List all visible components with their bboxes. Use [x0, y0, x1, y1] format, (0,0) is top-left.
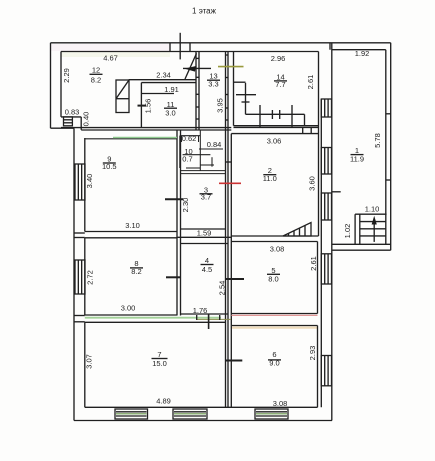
- svg-text:3.40: 3.40: [85, 174, 94, 189]
- svg-text:11: 11: [167, 100, 175, 109]
- svg-text:3.3: 3.3: [208, 80, 218, 89]
- svg-text:2.96: 2.96: [271, 54, 286, 63]
- svg-text:11.9: 11.9: [350, 154, 364, 163]
- svg-text:10.5: 10.5: [102, 162, 117, 171]
- svg-text:2.72: 2.72: [85, 270, 94, 285]
- svg-text:0.7: 0.7: [182, 155, 192, 164]
- svg-text:2.61: 2.61: [306, 75, 315, 90]
- svg-text:1 этаж: 1 этаж: [192, 7, 217, 16]
- svg-text:4.5: 4.5: [202, 265, 212, 274]
- svg-text:1.59: 1.59: [197, 229, 212, 238]
- svg-text:0.40: 0.40: [82, 112, 91, 127]
- svg-text:1.91: 1.91: [164, 85, 179, 94]
- svg-text:3.00: 3.00: [121, 304, 136, 313]
- svg-text:2.93: 2.93: [308, 346, 317, 361]
- svg-text:2.61: 2.61: [309, 256, 318, 271]
- svg-text:2.34: 2.34: [156, 71, 171, 80]
- svg-text:3.06: 3.06: [267, 137, 282, 146]
- svg-text:3.08: 3.08: [270, 245, 285, 254]
- svg-text:11.0: 11.0: [263, 174, 277, 183]
- svg-text:1.02: 1.02: [343, 224, 352, 239]
- svg-text:1.92: 1.92: [355, 49, 370, 58]
- svg-text:0.84: 0.84: [207, 140, 222, 149]
- svg-text:4: 4: [205, 256, 209, 265]
- svg-text:4.67: 4.67: [103, 54, 118, 63]
- svg-text:1.76: 1.76: [193, 306, 208, 315]
- svg-text:2.54: 2.54: [218, 281, 227, 296]
- svg-text:3.60: 3.60: [308, 176, 317, 191]
- svg-text:1.10: 1.10: [365, 205, 380, 214]
- svg-text:2.29: 2.29: [62, 68, 71, 83]
- svg-text:15.0: 15.0: [152, 359, 167, 368]
- svg-text:3.07: 3.07: [85, 354, 94, 369]
- svg-text:12: 12: [92, 66, 100, 75]
- svg-text:3.08: 3.08: [273, 399, 288, 408]
- svg-text:8.2: 8.2: [131, 267, 141, 276]
- svg-text:2.30: 2.30: [181, 198, 190, 213]
- svg-text:8.0: 8.0: [268, 274, 278, 283]
- svg-text:9.0: 9.0: [269, 358, 279, 367]
- svg-text:1.56: 1.56: [144, 99, 153, 114]
- svg-text:5.78: 5.78: [373, 133, 382, 148]
- svg-text:3.95: 3.95: [216, 98, 225, 113]
- svg-text:3.10: 3.10: [125, 221, 140, 230]
- svg-text:8.2: 8.2: [91, 76, 101, 85]
- svg-text:7.7: 7.7: [275, 80, 285, 89]
- svg-text:4.89: 4.89: [156, 397, 171, 406]
- svg-text:7: 7: [157, 350, 161, 359]
- svg-text:0.83: 0.83: [65, 108, 80, 117]
- svg-text:3.7: 3.7: [201, 193, 211, 202]
- svg-text:0.62: 0.62: [182, 134, 197, 143]
- svg-text:3.0: 3.0: [165, 109, 175, 118]
